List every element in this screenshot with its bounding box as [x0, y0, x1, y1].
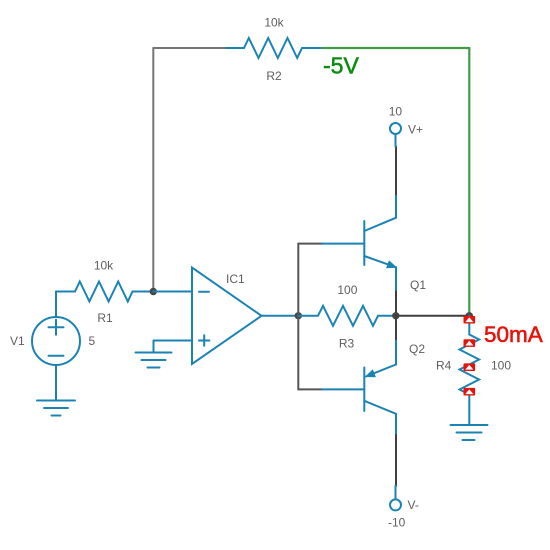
R2 label [266, 69, 282, 83]
svg-text:R3: R3 [339, 337, 355, 351]
node junction D (output node) [466, 312, 473, 319]
current arrow marker 1 [464, 316, 476, 324]
current label 50mA [484, 322, 543, 347]
wire op-amp output lead [262, 315, 299, 317]
svg-text:IC1: IC1 [226, 272, 245, 286]
wire green -5V net right vertical [468, 48, 470, 316]
transistor Q2 [322, 339, 396, 435]
wire Q1 emitter to rail [395, 291, 397, 315]
current arrow marker 4 [464, 388, 476, 396]
R3 label [339, 337, 355, 351]
terminal V- [390, 486, 401, 511]
current arrow marker 2 [464, 339, 476, 347]
R4 label [436, 359, 452, 373]
current arrow marker 3 [464, 363, 476, 371]
node junction C (emitter rail) [392, 312, 399, 319]
V1 label [10, 334, 25, 348]
ground at op-amp non-inverting input [136, 341, 172, 368]
V- value -10 [388, 516, 406, 530]
wire Q2 emitter to rail [395, 316, 397, 339]
node junction A (inverting input) [150, 288, 157, 295]
V+ value 10 [389, 105, 403, 119]
svg-text:-10: -10 [388, 516, 406, 530]
Q2 label [409, 342, 425, 356]
V+ label [408, 123, 423, 137]
svg-text:50mA: 50mA [484, 322, 543, 347]
wire output rail [396, 315, 470, 317]
svg-text:5: 5 [89, 334, 96, 348]
V- label [408, 498, 419, 512]
net label -5V [323, 53, 359, 79]
V1 value 5 [89, 334, 96, 348]
wire V1 to R1 [56, 291, 75, 293]
svg-text:100: 100 [337, 283, 357, 297]
wire Q2 collector to V- [395, 435, 397, 486]
svg-text:R2: R2 [266, 69, 282, 83]
R3 value 100 [337, 283, 357, 297]
ground below V1 [37, 401, 75, 416]
svg-text:-5V: -5V [323, 53, 359, 79]
svg-text:10: 10 [389, 105, 403, 119]
svg-text:R1: R1 [97, 311, 113, 325]
wire green -5V net top [322, 47, 469, 49]
wire V+ to Q1 collector [395, 147, 397, 195]
wire to Q1 base [298, 243, 322, 245]
op-amp IC1 [153, 268, 261, 365]
svg-text:R4: R4 [436, 359, 452, 373]
svg-text:100: 100 [491, 359, 511, 373]
svg-text:Q2: Q2 [409, 342, 425, 356]
ground below R4 [451, 425, 488, 440]
wire feedback vertical (net: op-amp inverting input) [152, 48, 154, 292]
resistor R2 [227, 38, 322, 58]
Q1 label [410, 278, 426, 292]
transistor Q1 [322, 194, 396, 291]
wire base loop vertical [297, 244, 299, 390]
resistor R1 [75, 282, 153, 302]
svg-text:10k: 10k [264, 16, 284, 30]
R4 value 100 [491, 359, 511, 373]
resistor R3 [298, 306, 396, 326]
svg-text:V+: V+ [408, 123, 423, 137]
svg-text:Q1: Q1 [410, 278, 426, 292]
svg-text:V-: V- [408, 498, 419, 512]
R1 label [97, 311, 113, 325]
R2 value 10k [264, 16, 284, 30]
R1 value 10k [94, 259, 114, 273]
resistor R4 [460, 316, 480, 425]
wire to Q2 base [298, 388, 322, 390]
svg-text:10k: 10k [94, 259, 114, 273]
IC1 label [226, 272, 245, 286]
wire feedback top horizontal [153, 47, 227, 49]
svg-text:V1: V1 [10, 334, 25, 348]
voltage source V1 [32, 292, 80, 401]
node junction B (op-amp output) [295, 312, 302, 319]
terminal V+ [390, 123, 401, 147]
